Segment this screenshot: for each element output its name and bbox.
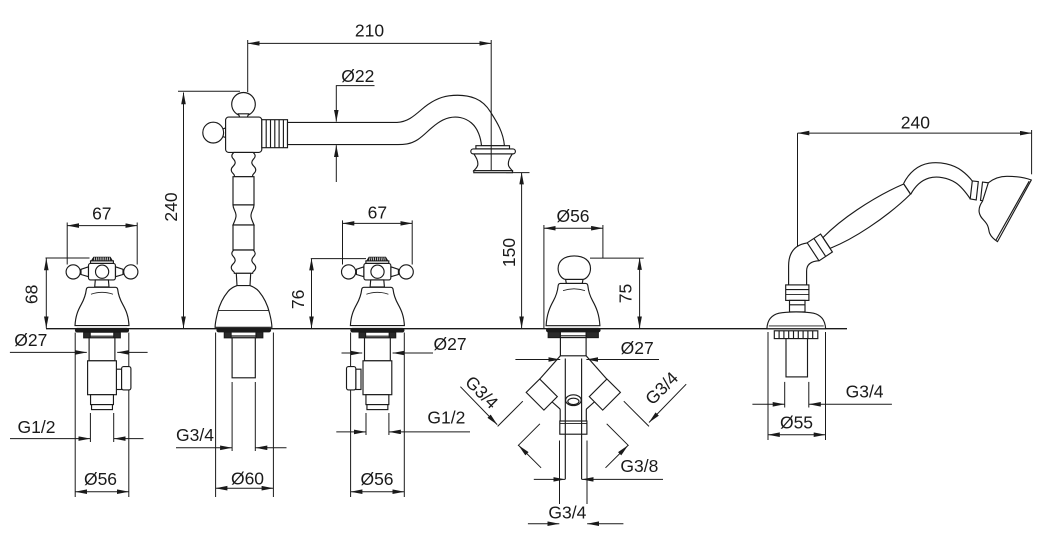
dimension 68 valve1 height [46, 258, 90, 328]
diverter mounting flange [548, 332, 598, 338]
dimension 76 valve2 height [311, 259, 366, 329]
svg-text:G3/4: G3/4 [461, 372, 502, 413]
spout column neck F [236, 273, 250, 285]
dimension G3/4 spout shank [176, 382, 287, 451]
svg-text:Ø22: Ø22 [341, 66, 374, 86]
spout column ring segment A [231, 152, 255, 176]
redraw ext line 210 over spout [490, 40, 492, 170]
spout threaded shank [232, 338, 255, 378]
handshower head bell [979, 176, 1031, 241]
diverter right port collar [589, 379, 620, 410]
spout left ball [222, 128, 226, 138]
diverter bell [546, 283, 600, 325]
spout column vase waist C [233, 205, 254, 225]
diverter [526, 256, 620, 480]
valve V2 side port [356, 369, 361, 389]
svg-text:75: 75 [616, 284, 636, 303]
dimension 240 spout height [178, 91, 240, 328]
spout column cylinder D [233, 225, 254, 250]
spout column bell base [215, 286, 272, 328]
handshower arm tube [904, 163, 973, 199]
svg-text:Ø60: Ø60 [231, 469, 264, 489]
valve V1 (cold) with right side port [66, 257, 138, 410]
svg-text:240: 240 [901, 113, 930, 133]
spout column and swan tube [203, 93, 516, 378]
dimension D22 leader [336, 86, 375, 182]
dimension 67 valve1 handle [67, 223, 137, 265]
svg-text:76: 76 [288, 290, 308, 309]
dimension D56 valve1 base [75, 333, 129, 498]
dimension G3/4 diverter left port [460, 387, 541, 468]
svg-text:210: 210 [355, 21, 384, 41]
dimension D56 valve2 base [351, 333, 405, 498]
spout collar rings [262, 120, 288, 148]
svg-text:Ø56: Ø56 [84, 469, 117, 489]
dimension D27 diverter [515, 359, 659, 361]
svg-text:G3/8: G3/8 [620, 456, 658, 476]
dimension D27 valve2 [342, 352, 434, 354]
dimension 210 spout reach [248, 40, 492, 92]
svg-text:Ø56: Ø56 [360, 469, 393, 489]
svg-text:Ø56: Ø56 [556, 206, 589, 226]
svg-text:G3/4: G3/4 [176, 425, 214, 445]
dimension 67 valve2 handle [343, 220, 413, 264]
handshower cradle foot [790, 300, 806, 312]
svg-text:G1/2: G1/2 [427, 408, 465, 428]
spout column cylinder B [233, 177, 254, 205]
svg-text:150: 150 [499, 238, 519, 267]
svg-text:Ø55: Ø55 [780, 413, 813, 433]
diverter knob [558, 256, 590, 280]
dimension 240 handshower reach [798, 130, 1032, 248]
svg-text:Ø27: Ø27 [434, 334, 467, 354]
dimension G3/4 handshower shank [752, 382, 892, 408]
spout tube S-curve [288, 95, 505, 145]
handshower head collar [970, 181, 978, 200]
dimension G3/4 diverter right port [606, 384, 687, 468]
valve V2 (hot) with left side port [342, 257, 414, 410]
dimension 75 diverter height [590, 258, 644, 328]
svg-text:G3/4: G3/4 [846, 381, 884, 401]
spout hub block [226, 117, 262, 152]
diverter neck [560, 338, 586, 356]
handshower lock nut [774, 331, 818, 339]
dimension G1/2 valve1 shank [10, 413, 144, 442]
svg-text:Ø27: Ø27 [14, 330, 47, 350]
diverter coupling nut [560, 421, 587, 434]
handshower base dome [767, 312, 826, 329]
spout column ring segment E [231, 250, 255, 273]
dimension G1/2 valve2 shank [336, 413, 470, 435]
svg-text:67: 67 [92, 204, 111, 224]
spout top ball [232, 93, 256, 117]
diverter outlet hole [566, 395, 582, 406]
spout outlet flare [471, 146, 516, 173]
dimension G3/8 diverter bottom [534, 478, 663, 480]
dimension D56 diverter top [544, 225, 603, 328]
handshower cradle cup [786, 285, 809, 301]
valve V1 side port [116, 369, 121, 389]
diverter bore lines [565, 359, 581, 480]
svg-text:Ø27: Ø27 [621, 338, 654, 358]
handshower [767, 163, 1031, 377]
svg-text:68: 68 [22, 285, 42, 304]
dimension D27 valve1 [10, 351, 148, 353]
svg-text:G3/4: G3/4 [641, 368, 682, 409]
PARTS [66, 93, 1031, 480]
svg-text:67: 67 [368, 202, 387, 222]
diverter left port collar [526, 379, 557, 410]
handshower lower collar [807, 234, 832, 261]
diverter Y body [540, 356, 607, 421]
spout base plate [217, 328, 271, 331]
handshower shank [786, 339, 808, 377]
spout mounting flange [224, 332, 262, 338]
handshower grip barrel [821, 180, 913, 252]
dimension D60 spout base [216, 333, 274, 498]
dimension G3/4 diverter bottom outlet [528, 441, 624, 524]
deck line [46, 328, 847, 330]
dimension D55 handshower base [768, 332, 826, 440]
diverter base plate [547, 328, 600, 331]
handshower elbow to cradle [789, 243, 819, 285]
dimension 150 spout outlet height [506, 173, 530, 329]
svg-text:G3/4: G3/4 [548, 503, 586, 523]
svg-text:240: 240 [161, 192, 181, 221]
svg-text:G1/2: G1/2 [18, 417, 56, 437]
